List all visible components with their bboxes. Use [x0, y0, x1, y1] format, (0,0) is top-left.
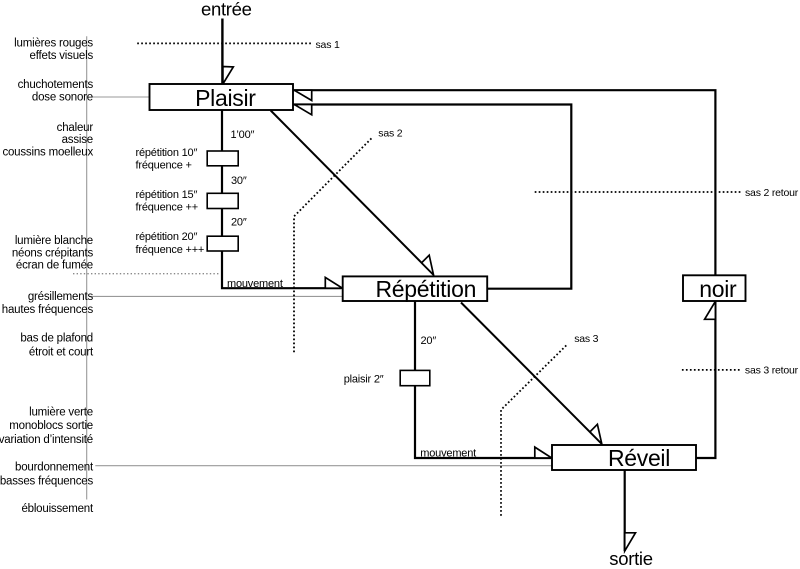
wire sortie vertical — [624, 470, 626, 551]
svg-text:sortie: sortie — [609, 548, 652, 569]
svg-text:dose sonore: dose sonore — [32, 91, 93, 103]
svg-text:variation d’intensité: variation d’intensité — [0, 434, 93, 446]
box noir — [683, 275, 746, 301]
gray connector dose sonore to Plaisir — [91, 96, 150, 98]
svg-text:répétition 10″: répétition 10″ — [136, 147, 198, 159]
svg-text:fréquence +++: fréquence +++ — [136, 244, 205, 256]
box répétition 15 — [207, 193, 238, 208]
svg-text:chuchotements: chuchotements — [18, 79, 94, 91]
svg-text:20″: 20″ — [231, 216, 247, 228]
svg-text:entrée: entrée — [201, 0, 252, 20]
arrow mouvement into Répétition — [325, 277, 342, 288]
box plaisir 2 — [400, 370, 430, 385]
svg-text:sas 3: sas 3 — [574, 333, 598, 345]
svg-text:effets visuels: effets visuels — [30, 50, 94, 62]
svg-text:20″: 20″ — [421, 335, 437, 347]
svg-text:répétition 20″: répétition 20″ — [136, 231, 198, 243]
svg-text:répétition 15″: répétition 15″ — [136, 189, 198, 201]
wire diagonal Répétition to Réveil — [461, 303, 602, 444]
wire Plaisir to mouvement corner — [222, 110, 342, 288]
svg-text:hautes fréquences: hautes fréquences — [2, 304, 94, 316]
svg-text:lumière verte: lumière verte — [29, 406, 93, 418]
svg-text:grésillements: grésillements — [28, 291, 94, 303]
svg-text:Répétition: Répétition — [376, 276, 477, 302]
svg-text:sas 2: sas 2 — [378, 128, 402, 140]
svg-text:bas de plafond: bas de plafond — [20, 333, 93, 345]
svg-text:mouvement: mouvement — [227, 278, 283, 290]
svg-text:bourdonnement: bourdonnement — [15, 462, 94, 474]
box Répétition — [343, 276, 488, 301]
gray connector bourdonnement to Réveil — [95, 465, 552, 467]
svg-text:fréquence ++: fréquence ++ — [136, 202, 198, 214]
arrow into Plaisir right upper — [294, 90, 311, 100]
wire Réveil right to noir bottom — [696, 301, 715, 458]
box répétition 20 — [207, 236, 238, 251]
arrow into Plaisir top — [223, 67, 233, 85]
svg-text:30″: 30″ — [231, 175, 247, 187]
gray dotted connector écran de fumée — [73, 273, 221, 275]
arrow into Plaisir right lower — [294, 105, 311, 115]
svg-text:lumière blanche: lumière blanche — [15, 235, 93, 247]
wire Répétition down to mouvement to Réveil — [415, 301, 551, 458]
wire loop B Répétition right to Plaisir — [293, 105, 571, 289]
box Plaisir — [150, 84, 294, 110]
svg-text:éblouissement: éblouissement — [21, 503, 94, 515]
arrow mouvement into Réveil — [535, 447, 552, 458]
svg-text:1’00″: 1’00″ — [231, 129, 255, 141]
dotted line sas 2 retour — [535, 191, 742, 193]
svg-text:écran de fumée: écran de fumée — [16, 260, 93, 272]
svg-text:assise: assise — [62, 134, 93, 146]
svg-text:étroit et court: étroit et court — [29, 346, 94, 358]
svg-text:sas 2 retour: sas 2 retour — [745, 187, 799, 199]
svg-text:néons crépitants: néons crépitants — [12, 247, 94, 259]
svg-text:mouvement: mouvement — [420, 448, 476, 460]
svg-text:fréquence +: fréquence + — [136, 160, 192, 172]
svg-text:Plaisir: Plaisir — [195, 85, 256, 111]
svg-text:basses fréquences: basses fréquences — [0, 475, 93, 487]
svg-text:plaisir 2″: plaisir 2″ — [344, 374, 384, 386]
svg-text:coussins moelleux: coussins moelleux — [2, 146, 93, 158]
dotted line sas 3 — [501, 344, 568, 516]
gray connector grésillements to Répétition — [90, 295, 342, 297]
svg-text:noir: noir — [699, 276, 737, 302]
dotted line sas 1 — [137, 42, 311, 44]
arrow up into noir — [705, 301, 716, 319]
svg-text:sas 3 retour: sas 3 retour — [745, 364, 799, 376]
dotted line sas 2 — [294, 138, 372, 352]
box répétition 10 — [207, 151, 238, 166]
wire diagonal Plaisir to Répétition — [271, 111, 434, 275]
box Réveil — [552, 445, 696, 470]
dotted line sas 3 retour — [682, 369, 742, 371]
svg-text:monoblocs sortie: monoblocs sortie — [9, 420, 93, 432]
gray guide line vertical left column — [86, 36, 88, 499]
svg-text:Réveil: Réveil — [608, 445, 670, 471]
arrow down sortie — [625, 533, 636, 551]
arrow diagonal into Réveil — [590, 424, 602, 444]
wire loop A noir top to Plaisir — [293, 90, 715, 275]
svg-text:lumières rouges: lumières rouges — [14, 37, 93, 49]
svg-text:sas 1: sas 1 — [316, 39, 340, 51]
svg-text:chaleur: chaleur — [57, 122, 94, 134]
wire entrée vertical — [221, 19, 223, 85]
arrow diagonal into Répétition — [422, 255, 434, 275]
